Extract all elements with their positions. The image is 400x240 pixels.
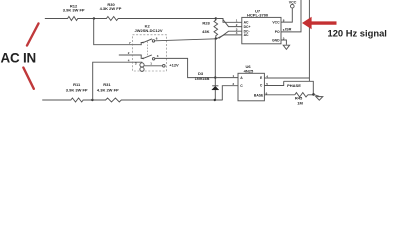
node +12V terminal (163, 65, 166, 68)
svg-text:GND: GND (272, 38, 280, 42)
wire U6 emitter (264, 77, 309, 79)
wire pole2 upper feed (119, 54, 141, 56)
relay K2 mechanical link (147, 42, 149, 57)
wire bottom rail right segment (121, 99, 222, 101)
svg-text:BASE: BASE (254, 93, 264, 97)
wire PHASE net (284, 81, 314, 94)
node D3 bottom rail junction (214, 99, 216, 101)
relay K2 dashed enclosure (133, 35, 167, 71)
svg-text:1: 1 (150, 61, 152, 65)
red slash to bottom rail (23, 68, 33, 89)
wire top rail right segment (118, 18, 216, 20)
node D3 top tap (214, 76, 216, 78)
svg-text:C: C (240, 84, 243, 88)
svg-text:PHASE: PHASE (287, 83, 301, 88)
svg-text:ISR: ISR (285, 27, 292, 31)
relay contact 1 (140, 43, 142, 45)
resistor R30 (106, 17, 118, 21)
wire U6 anode feed (215, 77, 238, 79)
relay contact 2 (140, 55, 142, 58)
wire bottom rail left segment (43, 99, 71, 101)
svg-text:43K: 43K (202, 29, 209, 34)
wire U7 pin4 link (217, 35, 242, 39)
wire top rail mid segment (78, 18, 107, 20)
wire U7 GND pin (281, 40, 286, 45)
resistor R11 (71, 98, 83, 102)
wire U7 pin3 link (219, 31, 242, 38)
red arrow pointing at ISR wire (310, 21, 337, 24)
svg-text:PO: PO (275, 30, 280, 34)
wire D3 column (214, 39, 216, 100)
node R28 top (215, 17, 217, 19)
wire feed1 drop (94, 19, 142, 45)
wire U7 PO output (ISR) (281, 0, 301, 32)
svg-text:1M: 1M (297, 101, 303, 106)
wire U6 collector with jog (264, 81, 283, 85)
svg-text:6: 6 (156, 36, 158, 40)
svg-text:+12V: +12V (169, 63, 179, 68)
resistor R12 (68, 17, 78, 21)
svg-text:A: A (240, 76, 243, 80)
ground (U7) (283, 45, 289, 49)
node VCC terminal circle (291, 4, 295, 8)
node PHASE pulldown junction (312, 93, 315, 96)
wire U6 cathode riser (222, 86, 238, 100)
wire contact1 output to R28 bottom node (155, 39, 216, 41)
wire contact2 output (155, 58, 214, 77)
transistor U6 4N25 optocoupler box (238, 73, 264, 101)
svg-text:E: E (260, 76, 263, 80)
ground (PHASE pulldown) (314, 94, 320, 96)
svg-text:R28: R28 (202, 20, 210, 25)
wire U7 pin1 link (216, 19, 242, 23)
svg-text:4.3K 2W FP: 4.3K 2W FP (100, 6, 122, 11)
svg-text:AC IN: AC IN (1, 51, 36, 66)
svg-text:120 Hz signal: 120 Hz signal (328, 27, 387, 38)
wire R45 to node (308, 94, 314, 96)
wire feed2 riser (93, 62, 142, 100)
resistor R28 (vertical) (214, 19, 218, 39)
node top junction A (93, 17, 95, 19)
svg-text:DC+: DC+ (244, 25, 251, 29)
svg-text:VCC: VCC (289, 1, 297, 5)
svg-text:4.3K 2W FP: 4.3K 2W FP (97, 87, 119, 92)
svg-text:HCPL-3700: HCPL-3700 (247, 13, 269, 18)
wire U7 VCC pin (281, 8, 292, 22)
svg-text:C: C (260, 84, 263, 88)
svg-text:3.9K 3W FP: 3.9K 3W FP (63, 8, 85, 13)
wire vertical net from top to PHASE (308, 0, 310, 81)
svg-text:1N914B: 1N914B (195, 76, 210, 81)
resistor R31 (106, 98, 122, 102)
resistor R45 (295, 93, 308, 97)
svg-text:AC: AC (244, 21, 249, 25)
wire bottom rail mid segment (83, 99, 105, 101)
wire U6 base to R45 (264, 94, 294, 96)
svg-text:3: 3 (157, 54, 159, 58)
wire coil to +12V (144, 65, 162, 67)
svg-text:2: 2 (128, 51, 130, 55)
wire U7 pin2 link (223, 20, 242, 27)
svg-text:4N25: 4N25 (244, 68, 254, 73)
wire top rail left segment (45, 18, 67, 20)
svg-text:2: 2 (233, 82, 235, 86)
op-amp U7 HCPL-3700 optocoupler box (242, 17, 281, 43)
relay K2 coil (140, 63, 165, 72)
node R28 bottom (215, 37, 217, 39)
svg-text:3.9K 3W FP: 3.9K 3W FP (66, 87, 88, 92)
red slash to top rail (27, 24, 39, 46)
svg-text:AC: AC (244, 33, 249, 37)
svg-text:JW2SN-DC12V: JW2SN-DC12V (134, 28, 162, 33)
diode D3 (212, 85, 218, 87)
svg-text:VCC: VCC (272, 20, 280, 24)
node bottom junction B (91, 99, 93, 101)
